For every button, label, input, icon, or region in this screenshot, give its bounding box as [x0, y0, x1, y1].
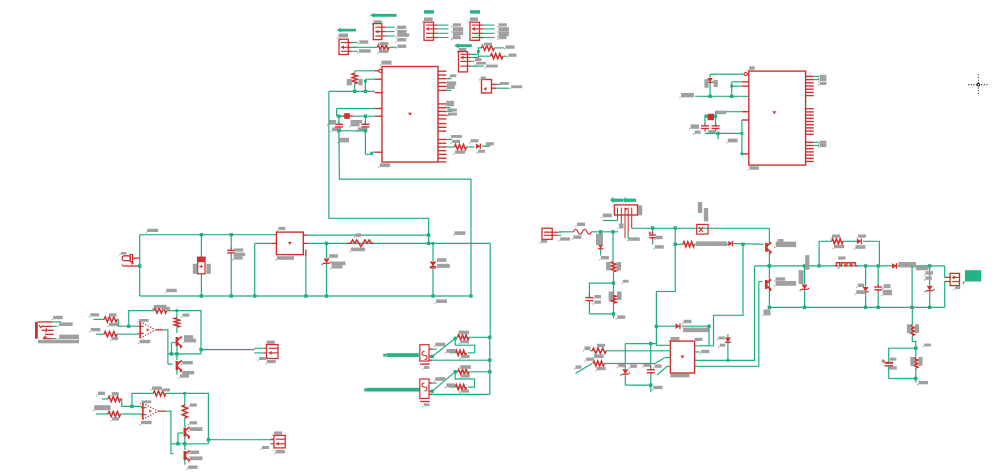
- wire U1 p1: [355, 70, 375, 72]
- pin U6 p7: [742, 153, 749, 155]
- connector CN1 (power jack): [35, 322, 54, 339]
- label U1 r2 net b: [446, 109, 457, 113]
- zener Z6 wing: [706, 81, 715, 84]
- wire 912 drop: [911, 266, 913, 308]
- wire Z1 bot: [326, 264, 328, 296]
- wire U6 r3-2 stub: [814, 145, 819, 147]
- label J2 pin3 net: [396, 38, 407, 43]
- label D4 name: [682, 320, 692, 325]
- wire 709 to ic3: [708, 326, 710, 346]
- label J3 pin2 net: [451, 27, 463, 33]
- bus label opto1 dot: [383, 354, 386, 357]
- label R7 value: [459, 340, 469, 345]
- diode D1: [476, 144, 480, 149]
- label T3 pinC: [627, 237, 640, 242]
- label C13 value: [888, 366, 897, 371]
- diode D6: [857, 239, 861, 245]
- pin U1 r2-2: [438, 107, 446, 109]
- pin U1 r1-6: [438, 89, 446, 91]
- pin U1 r4-2: [438, 142, 446, 144]
- label U5 below: [422, 403, 429, 407]
- wire caps rail: [339, 130, 366, 132]
- label R19 value: [617, 262, 622, 270]
- zener Z7: [622, 369, 628, 374]
- wire snubber c: [863, 241, 880, 266]
- wire J1 pin2 to R1: [352, 46, 378, 48]
- resistor R17: [458, 369, 469, 374]
- pin U6 r1-3: [806, 82, 814, 84]
- label R12 value: [181, 314, 190, 319]
- wire lower b: [694, 243, 728, 245]
- label R24 value: [833, 245, 845, 250]
- connector CN4 mark: [545, 231, 547, 233]
- label T3 pinB: [618, 224, 624, 230]
- net label arrow J5: [454, 43, 472, 48]
- wire r17v bot: [613, 272, 615, 283]
- label U4 below: [422, 366, 429, 370]
- pin U1 r3-2: [438, 126, 446, 128]
- label R16 value: [188, 403, 197, 408]
- wire U1 r2-4 stub: [446, 114, 450, 116]
- net label arrow A1: [337, 28, 357, 33]
- junction toprail x804: [803, 264, 806, 267]
- label J1 pin3 net: [357, 49, 371, 54]
- wire R14 in: [96, 413, 108, 415]
- wire OA2 out: [166, 411, 171, 453]
- connector J1: [339, 39, 358, 54]
- label caps2 net: [726, 139, 737, 144]
- wire J5 pin1 to R2: [472, 48, 482, 54]
- wire d5 vert: [727, 334, 729, 360]
- junction gndrail x912: [910, 306, 913, 309]
- label D4 value: [683, 328, 709, 333]
- capacitor C6 plus: [649, 232, 652, 235]
- wire snubber: [819, 241, 832, 266]
- wire rail B: [308, 242, 490, 244]
- label caps net: [338, 138, 350, 144]
- resistor R8: [455, 350, 466, 355]
- resistor R9: [104, 317, 117, 322]
- label R14 value: [111, 417, 120, 422]
- label R10 value: [110, 337, 118, 342]
- label R11 value: [162, 307, 171, 312]
- label Z7 name: [617, 364, 626, 369]
- label R11 name: [152, 305, 162, 310]
- label sense mid: [923, 344, 932, 348]
- junction fb in: [127, 325, 130, 328]
- transistor Q1: [177, 337, 183, 349]
- net arrow T3 a head: [610, 197, 613, 203]
- fuse F1: [122, 255, 140, 266]
- label R9 left: [89, 313, 99, 318]
- varistor Z3: [598, 244, 604, 248]
- wire z4 bot: [804, 290, 806, 307]
- wire fb right: [167, 311, 201, 350]
- ic U2: [482, 80, 492, 93]
- pin U1 r2-5: [438, 118, 446, 120]
- label Q5 name: [774, 242, 796, 249]
- ic U7: [670, 341, 694, 373]
- label C4 name: [233, 248, 244, 253]
- label R22 name: [596, 344, 606, 349]
- label J5 name: [457, 48, 467, 53]
- origin crosshair: [968, 75, 988, 95]
- label D1 net: [484, 142, 494, 147]
- junction p6: [370, 152, 373, 155]
- wire opto1 bottom: [432, 359, 490, 361]
- resistor R1: [378, 45, 390, 50]
- label CN3 name: [273, 431, 283, 436]
- junction toprail x819: [817, 264, 820, 267]
- resistor R11: [154, 308, 167, 313]
- label F1 value: [119, 252, 126, 256]
- pin U1 p1: [375, 70, 380, 72]
- junction U5 p3: [431, 390, 434, 393]
- op-amp OA1: [138, 322, 163, 339]
- pin U6 r1-2: [806, 79, 814, 81]
- wire d4 left: [656, 325, 675, 327]
- pin U6 p1 diamond: [744, 73, 747, 76]
- connector J3: [424, 22, 449, 40]
- label caploop r: [621, 280, 628, 284]
- label F1 name: [146, 229, 159, 234]
- wire rail96: [695, 95, 749, 97]
- ic U6: [749, 71, 806, 165]
- pin U6 r2-8: [806, 130, 814, 132]
- wire C4 top: [230, 235, 232, 249]
- label R10 name: [89, 328, 100, 333]
- junction sense bot: [914, 377, 917, 380]
- pin U6 r3-5: [806, 154, 814, 156]
- wire c13 bot: [888, 366, 890, 379]
- wire r26 bot: [915, 368, 917, 379]
- ic U1: [382, 67, 438, 163]
- label J1 name: [337, 34, 348, 40]
- wire top rail: [755, 265, 945, 267]
- wire u7 gnd rail: [625, 384, 651, 386]
- wire p3 wire: [732, 85, 742, 87]
- pin U6 p5: [742, 111, 749, 113]
- label D5 value: [718, 344, 725, 348]
- junction rail91 a: [353, 90, 356, 93]
- label R18 left label: [445, 383, 456, 388]
- label Z2 value: [435, 264, 450, 270]
- wire R16 top: [184, 393, 186, 405]
- label CN4 pin2: [559, 237, 571, 242]
- wire snubber b: [843, 240, 857, 242]
- junction opto1 fb: [454, 337, 457, 340]
- label R17 name: [459, 365, 471, 370]
- junction p2 drop: [364, 80, 367, 83]
- pin T2 bottom: [305, 250, 307, 257]
- junction R17 end: [488, 370, 491, 373]
- junction gnd x433: [431, 294, 434, 297]
- wire R13 stub: [121, 398, 122, 400]
- pin U6 r1-6: [806, 91, 814, 93]
- connector J4: [470, 22, 495, 40]
- wire U2 b: [496, 87, 509, 89]
- transformer T3 mark: [624, 208, 627, 211]
- junction p7: [741, 153, 744, 156]
- wire c6 drop: [652, 228, 654, 234]
- label U6 name: [748, 66, 755, 71]
- label CN3 below: [274, 450, 285, 455]
- label R23 value: [595, 367, 606, 372]
- wire z5 bot: [929, 291, 931, 307]
- wire U5 diagonal: [432, 372, 455, 391]
- wire rail y91: [329, 90, 375, 92]
- zener Z4 wing: [800, 288, 810, 291]
- wire Z2 bot: [432, 268, 434, 296]
- inductor L1: [348, 240, 374, 247]
- wire caploop stub: [613, 314, 615, 319]
- wire cap loop bottom: [589, 313, 613, 315]
- wire d8 drop: [865, 266, 867, 287]
- pin U4 p4: [429, 359, 432, 361]
- wire r23 out: [604, 363, 655, 365]
- label CN3 left: [261, 446, 270, 451]
- net label bar J4: [470, 10, 480, 13]
- wire d8 bot: [865, 292, 867, 307]
- label Z1 name: [328, 254, 338, 259]
- pin U2 a: [492, 83, 497, 85]
- label C1 name: [327, 120, 336, 126]
- label U7 right: [693, 338, 703, 343]
- resistor R18: [455, 385, 466, 390]
- label R19 name: [606, 262, 610, 270]
- label u7 gnd net: [652, 386, 663, 391]
- wire R10 to opamp: [117, 333, 139, 335]
- diode D7: [892, 263, 896, 269]
- wire CN1 top green: [53, 321, 62, 323]
- capacitor C2: [361, 121, 369, 130]
- wire out conn top: [944, 266, 946, 278]
- junction gnd x201: [200, 294, 203, 297]
- pin U1 r1-3: [438, 78, 446, 80]
- wire R16 bot: [184, 418, 186, 427]
- wire R18 left: [450, 386, 456, 388]
- resistor R15: [153, 391, 166, 396]
- pin U4 p5: [420, 363, 430, 365]
- diode D4: [676, 323, 680, 329]
- pin U1 r2-4: [438, 114, 446, 116]
- wire u7 diag2: [657, 366, 667, 375]
- label L2 tick: [837, 267, 840, 269]
- wire r22 in: [590, 350, 592, 352]
- junction u7 in: [649, 342, 652, 345]
- wire z4 drop: [804, 266, 806, 284]
- junction caploop top: [612, 281, 615, 284]
- resistor R24: [832, 239, 843, 244]
- wire q5 bot: [768, 252, 770, 308]
- label railA net: [453, 231, 466, 236]
- wire sense mid: [912, 336, 916, 349]
- wire T2 left drop: [255, 242, 272, 244]
- wire opto2 bottom: [432, 393, 490, 395]
- label R20 name: [609, 292, 613, 300]
- wire fb up: [129, 311, 154, 327]
- wire J5 pin4 stub: [472, 65, 484, 67]
- wire p4 drop: [336, 109, 338, 117]
- wire U1 r2-1 stub: [446, 103, 450, 105]
- label rail96: [680, 93, 695, 99]
- label R9 value: [107, 323, 118, 328]
- wire c12 drop: [877, 266, 879, 286]
- label gnd right: [762, 309, 771, 317]
- label R21 big label: [696, 241, 727, 246]
- wire cap loop left: [589, 283, 613, 297]
- wire U1 r1-6 stub: [446, 89, 451, 91]
- pin U6 r1-1: [806, 75, 814, 77]
- junction pc mid: [727, 359, 730, 362]
- junction out c: [199, 348, 202, 351]
- zener Z5 wing: [925, 289, 935, 292]
- label Z5 name: [924, 271, 933, 276]
- label Q3 value: [188, 427, 203, 432]
- label sense net: [917, 381, 928, 386]
- wire u7 pin4: [667, 365, 670, 367]
- wire R4 top: [354, 71, 356, 73]
- resistor R4: [352, 73, 357, 84]
- label U7 value: [670, 374, 689, 378]
- junction rail96 z6: [708, 95, 711, 98]
- wire R9 to opamp: [118, 319, 139, 326]
- label J5 pin2 netl: [474, 58, 482, 62]
- pin U6 r3-4: [806, 151, 814, 153]
- label U1 name: [380, 61, 392, 67]
- transistor Q5: [766, 242, 772, 254]
- wire rail A left: [140, 234, 277, 236]
- label R23 name: [585, 358, 595, 363]
- junction railB link: [427, 242, 430, 245]
- label Q5 name2: [778, 239, 784, 242]
- wire OA1 out: [163, 330, 168, 364]
- wire J5 pin2 to R3: [472, 56, 491, 57]
- pin U6 r3-3: [806, 148, 814, 150]
- junction toprail x929: [928, 264, 931, 267]
- pin U4 p1: [429, 348, 433, 350]
- capacitor C5: [585, 295, 593, 304]
- pin U6 p1: [747, 73, 749, 75]
- label Z4 value: [805, 255, 809, 270]
- junction fb2 in: [130, 405, 133, 408]
- wire 675 down: [656, 244, 675, 326]
- wire railB to opto: [489, 243, 491, 338]
- wire q6 base vert: [695, 282, 759, 367]
- label C12 name: [882, 284, 891, 290]
- pin U1 p6: [375, 151, 382, 153]
- resistor R16: [182, 405, 187, 418]
- pin U6 r3-2: [806, 145, 814, 147]
- junction Z1 top: [325, 242, 328, 245]
- connector J2: [373, 24, 395, 40]
- wire net1 long: [329, 91, 429, 243]
- optocoupler U4: [420, 345, 429, 361]
- wire path743: [714, 244, 744, 345]
- wire U6 p1: [710, 73, 744, 75]
- wire c11 vert: [650, 344, 652, 369]
- resistor R21: [683, 242, 694, 247]
- junction out a: [170, 352, 173, 355]
- label R4 name: [347, 79, 352, 86]
- wire r4 chain b: [467, 146, 475, 148]
- label R1 net: [396, 45, 406, 50]
- net label bar J3: [424, 10, 434, 13]
- wire sec end drop: [768, 228, 770, 243]
- junction F1: [138, 264, 141, 267]
- label J2 name: [372, 20, 382, 25]
- wire CN4 to fuse: [559, 231, 573, 233]
- wire out2 step: [208, 440, 274, 444]
- zener Z1 wing: [322, 262, 332, 265]
- label J4 pin1 net: [497, 23, 507, 28]
- junction out2 a: [176, 442, 179, 445]
- wire r4 chain c: [482, 145, 490, 147]
- label U1 r4 net: [449, 135, 462, 139]
- wire C1 drop: [338, 116, 340, 124]
- junction q5 rail: [768, 264, 771, 267]
- wire U1 p2 jog: [365, 78, 374, 80]
- junction x2 left: [704, 115, 707, 118]
- wire r23 diag: [576, 364, 593, 374]
- label T3 left: [601, 214, 612, 219]
- label U6 r3-1: [818, 141, 826, 146]
- label F2 name: [576, 223, 586, 228]
- label C6 name: [655, 236, 663, 241]
- label U2 name: [479, 77, 486, 81]
- wire c11 bot: [650, 376, 652, 385]
- junction p3 wire: [730, 85, 733, 88]
- wire CN1 stub b: [53, 338, 57, 340]
- label D6 name: [857, 235, 867, 240]
- label D6 value: [854, 245, 866, 250]
- pin T2 left b: [272, 242, 277, 244]
- label caploop net: [616, 315, 626, 320]
- wire u7 pin3: [665, 357, 670, 359]
- pin T2 right b: [303, 242, 308, 244]
- label D1 value: [477, 150, 486, 155]
- label L1 value: [349, 248, 365, 253]
- label CN1 net a: [58, 322, 73, 327]
- label C10 value: [707, 130, 716, 135]
- label R7 name: [457, 331, 469, 336]
- junction rail91 b: [364, 90, 367, 93]
- label C4 value: [232, 253, 245, 262]
- diode D5: [725, 338, 731, 343]
- pin T2 right a: [303, 234, 308, 236]
- wire u7 in: [625, 344, 670, 346]
- junction X1 right: [364, 115, 367, 118]
- label Z7 value: [629, 364, 638, 369]
- label U4 name: [434, 343, 446, 348]
- junction Z2 top: [432, 242, 435, 245]
- bus label opto1 feed: [386, 353, 419, 357]
- connector CN2: [254, 345, 278, 359]
- resistor R14: [108, 411, 121, 416]
- diode D3: [728, 241, 732, 246]
- junction toprail x878: [877, 264, 880, 267]
- wire z7 vert: [624, 344, 626, 369]
- wire U6 r1-1 stub: [814, 75, 819, 77]
- wire z7 bot: [624, 375, 626, 385]
- pin U1 r4-7: [438, 161, 446, 163]
- pin U1 r1-1: [438, 70, 446, 72]
- wire p2 drop: [731, 82, 733, 97]
- label R25 value: [915, 324, 919, 333]
- zener Z1: [324, 259, 330, 264]
- pin U1 r1-2: [438, 74, 446, 76]
- wire U4 p1 stub: [433, 348, 437, 350]
